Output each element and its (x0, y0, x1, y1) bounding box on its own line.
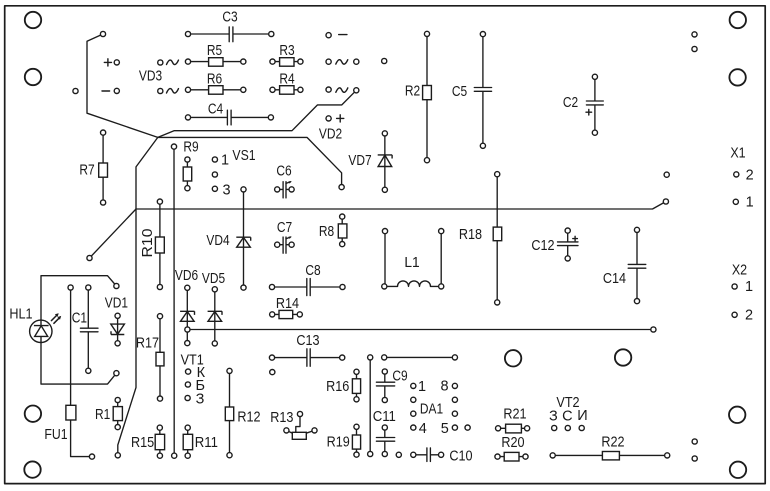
svg-text:R16: R16 (326, 379, 349, 395)
wire upper branch to VD2 + pad (158, 90, 356, 137)
svg-text:C14: C14 (603, 271, 626, 287)
resistor R8 lead (341, 217, 343, 245)
resistor R1 pads (115, 397, 120, 402)
resistor R2 top pad (424, 31, 429, 36)
diode VD7 symbol (378, 155, 392, 166)
node spare pad right of DA1 pin5 (465, 425, 470, 430)
resistor R12 body (225, 407, 233, 421)
resistor R19 body (352, 435, 360, 449)
capacitor C3 right pad (269, 31, 274, 36)
capacitor C4 right pad (268, 115, 273, 120)
resistor R10 pads (157, 199, 162, 204)
capacitor C5 leads and plates (474, 34, 491, 146)
svg-text:VD6: VD6 (175, 268, 198, 284)
resistor R8 body (338, 224, 347, 238)
capacitor C9 pads (382, 369, 387, 374)
diode VD5 top pad (212, 287, 217, 292)
svg-text:1: 1 (746, 195, 754, 211)
node HL1 box corner pad (87, 255, 92, 260)
svg-text:VD1: VD1 (105, 296, 128, 312)
LED HL1 symbol (35, 326, 48, 337)
transistor VT1 pad E (185, 395, 190, 400)
diode VD5 lead (214, 289, 216, 343)
capacitor C11 leads and plates (376, 428, 394, 455)
resistor R16 body (352, 379, 360, 394)
resistor R11 body (183, 434, 192, 449)
diode VD6 middle pad (185, 327, 190, 332)
svg-text:HL1: HL1 (9, 307, 32, 323)
resistor R12 pads (227, 368, 232, 373)
node bus1 right end pad (663, 199, 668, 204)
capacitor C12 pads (565, 228, 570, 233)
svg-text:R20: R20 (501, 435, 524, 451)
diode VD6 top pad (185, 285, 190, 290)
mounting hole bottom left 2 (24, 461, 40, 477)
node rail x370 pads (368, 355, 373, 360)
capacitor C3 left pad (185, 31, 190, 36)
resistor R20 lead (498, 456, 526, 458)
connector X1 pin 2 pad (734, 172, 739, 177)
capacitor C6 pads (275, 187, 280, 192)
capacitor C2 top pad (592, 74, 597, 79)
capacitor C4 leads and plates (188, 110, 271, 125)
inductor L1 pads (382, 229, 387, 234)
resistor R6 right pad (241, 87, 246, 92)
trimmer R13 body (292, 432, 306, 439)
svg-text:5: 5 (441, 421, 449, 437)
resistor R6 body (209, 86, 223, 95)
node FU1 bottom pad (89, 454, 94, 459)
wire bus2 horizontal from VD6 pad to right pad (187, 329, 653, 331)
capacitor C9 leads and plates (376, 372, 394, 401)
resistor R21 body (506, 424, 522, 433)
resistor R18 pads (495, 172, 500, 177)
node + pad VD2 bridge (326, 116, 331, 121)
connector X2 pin 2 pad (732, 312, 737, 317)
svg-text:8: 8 (440, 379, 448, 395)
mounting hole middle 2 (615, 349, 631, 365)
thyristor VS1 pad 2 (212, 172, 217, 177)
node AC pad VD2 row1 right (354, 59, 359, 64)
plus mark C12 (573, 236, 578, 241)
svg-text:4: 4 (419, 421, 427, 437)
resistor R5 left pad (185, 59, 190, 64)
resistor R3 right pad (298, 59, 303, 64)
C7 arrow head (289, 237, 292, 239)
svg-text:R21: R21 (503, 407, 526, 423)
svg-text:C11: C11 (373, 409, 396, 425)
mounting hole bottom left 1 (25, 406, 41, 422)
svg-text:И: И (577, 408, 587, 424)
resistor R7 pads (101, 130, 106, 135)
transistor VT1 pad B (185, 382, 190, 387)
capacitor C2 bottom pad (592, 130, 597, 135)
svg-text:R9: R9 (183, 140, 198, 156)
svg-text:С: С (562, 409, 572, 425)
node AC pad VD2 row2 left (326, 87, 331, 92)
minus mark right bridge top (339, 34, 347, 36)
svg-text:R19: R19 (327, 435, 350, 451)
node spare pad left of VD3 (73, 88, 78, 93)
svg-text:R22: R22 (601, 435, 624, 451)
resistor R18 lead (496, 174, 498, 302)
svg-text:R14: R14 (276, 296, 299, 312)
mounting hole top left 1 (25, 12, 41, 28)
node spare pad left of C10 (396, 452, 401, 457)
svg-text:VD7: VD7 (348, 153, 371, 169)
LED HL1 arrow heads (55, 313, 59, 317)
diode VD6 symbol (181, 312, 195, 322)
trimmer R13 wiper wire (296, 414, 300, 432)
capacitor C6 trimmer arrow (286, 182, 291, 184)
thyristor VS1 pad 3 (212, 186, 217, 191)
svg-text:VD3: VD3 (139, 69, 162, 85)
resistor R1 body (113, 407, 122, 421)
resistor R10 body (155, 237, 164, 253)
plus mark C2 (586, 109, 592, 115)
svg-text:C10: C10 (449, 449, 472, 465)
mounting hole middle 1 (505, 350, 521, 366)
capacitor C5 top pad (480, 31, 485, 36)
svg-text:R5: R5 (207, 43, 222, 59)
HL1 component box outline (41, 276, 116, 384)
svg-text:C4: C4 (208, 102, 223, 118)
diode VD5 bottom pad (212, 341, 217, 346)
capacitor C5 bottom pad (480, 143, 485, 148)
resistor R16 lead (356, 372, 358, 400)
capacitor C8 pads (269, 284, 274, 289)
resistor R16 pads (354, 369, 359, 374)
svg-text:VD2: VD2 (319, 127, 342, 143)
resistor R2 lead (426, 34, 428, 160)
node AC pad VD2 row1 left (326, 59, 331, 64)
svg-text:DA1: DA1 (420, 402, 443, 418)
svg-text:R12: R12 (237, 410, 260, 426)
trimmer R13 pad stubs (286, 430, 314, 433)
capacitor C2 leads and plates (586, 77, 603, 133)
svg-text:R1: R1 (95, 407, 110, 423)
svg-text:C13: C13 (296, 333, 319, 349)
capacitor C7 trimmer arrow (286, 237, 291, 239)
resistor R18 body (493, 227, 502, 241)
svg-text:З: З (196, 392, 205, 408)
resistor R4 body (280, 86, 294, 95)
resistor R20 pads (495, 454, 500, 459)
node - pad VD2 bridge (326, 33, 331, 38)
resistor R14 pads (270, 312, 275, 317)
minus mark left bridge (102, 90, 110, 92)
resistor R10 lead (159, 202, 161, 287)
svg-text:C6: C6 (276, 164, 291, 180)
resistor R21 lead (498, 427, 527, 429)
C6 arrow head (289, 181, 292, 183)
node spare pads top right (692, 32, 697, 37)
diode VD6 lead (186, 288, 188, 343)
resistor R7 body (99, 163, 108, 177)
IC DA1 pin 5 pad (452, 425, 457, 430)
svg-text:C1: C1 (72, 311, 87, 327)
resistor R20 body (504, 452, 519, 461)
node AC pad VD3 row1 (158, 60, 163, 65)
plus mark left bridge (104, 59, 111, 66)
resistor R22 pads (550, 453, 555, 458)
mounting hole top left 2 (25, 69, 41, 85)
wire vertical rail x=370 (369, 357, 371, 454)
resistor R9 pads (185, 157, 190, 162)
svg-text:L1: L1 (404, 255, 419, 271)
capacitor C8 leads and plates (272, 279, 343, 296)
resistor R6 left pad (185, 87, 190, 92)
AC tilde mark left bridge row2 (167, 89, 179, 94)
capacitor C13 leads and plates (272, 349, 342, 367)
wire left rail down to pad below R1 (118, 137, 158, 455)
node + pad VD3 bridge (114, 60, 119, 65)
svg-text:3: 3 (222, 183, 230, 199)
HL1 lamp arrows (51, 315, 60, 324)
svg-text:R13: R13 (270, 410, 293, 426)
connector X1 pin 1 pad (733, 199, 738, 204)
node spare pad right of VD2 (382, 58, 387, 63)
node spare pads bottom right (692, 439, 697, 444)
resistor R14 lead (272, 313, 300, 315)
capacitor C14 pads (634, 227, 639, 232)
svg-text:C2: C2 (563, 95, 578, 111)
svg-text:VS1: VS1 (232, 148, 255, 164)
trimmer R13 left pad (284, 428, 289, 433)
wire long vertical rail x=174 (173, 147, 175, 456)
svg-text:R18: R18 (459, 227, 482, 243)
IC DA1 pin 8 pad (452, 383, 457, 388)
diode VD7 top pad (382, 131, 387, 136)
resistor R15 body (155, 434, 164, 449)
svg-text:R6: R6 (207, 72, 222, 88)
inductor L1 legs (384, 231, 441, 286)
capacitor C6 leads and plates (277, 182, 291, 198)
resistor R19 lead (356, 427, 358, 455)
node spare pad below C13 (270, 370, 275, 375)
svg-text:R15: R15 (131, 435, 154, 451)
capacitor C13 pads (269, 355, 274, 360)
transistor VT1 pad K (186, 369, 191, 374)
capacitor C14 leads and plates (628, 230, 646, 301)
IC DA1 pin 6 pad (452, 411, 457, 416)
AC tilde mark right bridge row2 (336, 88, 348, 93)
resistor R7 lead (102, 133, 104, 203)
diode VD6 bottom pad (185, 341, 190, 346)
svg-text:VD5: VD5 (202, 271, 225, 287)
resistor R8 pads (340, 214, 345, 219)
resistor R11 lead (187, 428, 189, 456)
svg-text:2: 2 (745, 308, 753, 324)
capacitor C3 leads and plates (188, 27, 271, 42)
wire FU1 column from C1 pad to bottom pad (71, 288, 92, 457)
plus mark right bridge VD2 (337, 115, 344, 122)
node pad end of lower branch (339, 185, 344, 190)
capacitor C11 pads (382, 425, 387, 430)
fuse FU1 body (66, 405, 76, 420)
thyristor VS1 pad 1 (212, 157, 217, 162)
node pad below R1 (115, 453, 120, 458)
resistor R4 left pad (270, 87, 275, 92)
diode VD1 pads (115, 313, 120, 318)
resistor R15 pads (157, 425, 162, 430)
capacitor C7 pads (275, 242, 280, 247)
resistor R2 bottom pad (424, 158, 429, 163)
transistor VT2 pad 3 (552, 425, 557, 430)
resistor R17 lead (159, 316, 161, 398)
node bus2 right end pad (651, 327, 656, 332)
resistor R15 lead (159, 428, 161, 456)
node HL1 box right pads (114, 283, 119, 288)
resistor R4 right pad (298, 87, 303, 92)
mounting hole top right 1 (730, 12, 746, 28)
svg-text:C7: C7 (277, 220, 292, 236)
svg-text:X1: X1 (730, 146, 745, 162)
wire from DC+ pad down left side to junction J1 (87, 34, 158, 137)
node rail x174 top pad (171, 144, 176, 149)
transistor VT2 pad C (565, 425, 570, 430)
trimmer R13 wiper pad (297, 411, 302, 416)
diode VD1 symbol (111, 324, 125, 334)
node spare pad above X1 (664, 172, 669, 177)
diode VD4 lead (243, 189, 245, 287)
node rail x174 bottom pad (172, 453, 177, 458)
node DC output pad top left (100, 31, 105, 36)
AC tilde mark left bridge row1 (167, 60, 179, 65)
svg-text:C9: C9 (392, 369, 407, 385)
resistor R5 body (209, 58, 223, 66)
resistor R21 pads (496, 426, 501, 431)
IC DA1 pin 7 pad (452, 397, 457, 402)
svg-text:C5: C5 (452, 84, 467, 100)
capacitor C4 left pad (185, 115, 190, 120)
capacitor C1 pads (86, 285, 91, 290)
IC DA1 pin 4 pad (411, 425, 416, 430)
svg-text:R10: R10 (140, 229, 156, 258)
svg-text:C8: C8 (305, 263, 320, 279)
diode VD5 symbol (208, 312, 222, 322)
wire DA1 top row (384, 356, 455, 358)
mounting hole bottom right 2 (730, 462, 746, 478)
svg-text:R11: R11 (195, 435, 218, 451)
capacitor C1 leads and plates (80, 288, 98, 371)
diode VD7 bottom pad (382, 187, 387, 192)
resistor R22 body (602, 452, 619, 460)
resistor R17 pads (157, 314, 162, 319)
resistor R17 body (156, 352, 164, 366)
resistor R2 body (423, 86, 432, 100)
resistor R3 body (280, 58, 294, 66)
resistor R9 body (183, 167, 192, 181)
svg-text:VD4: VD4 (206, 233, 229, 249)
svg-text:R3: R3 (279, 43, 294, 59)
connector X2 pin 1 pad (732, 284, 737, 289)
resistor R14 body (279, 310, 293, 318)
trimmer R13 right pad (312, 428, 317, 433)
resistor R19 pads (354, 424, 359, 429)
svg-text:R2: R2 (405, 84, 420, 100)
svg-text:З: З (549, 409, 558, 425)
IC DA1 pin 1 pad (411, 383, 416, 388)
AC tilde mark right bridge row1 (336, 60, 348, 65)
IC DA1 pin 2 pad (411, 397, 416, 402)
svg-text:C3: C3 (222, 10, 237, 26)
wire diagonal from bus1 to HL1 box pad (90, 209, 137, 258)
svg-text:1: 1 (221, 153, 229, 169)
wire lower branch to node pad near C6 (158, 137, 342, 187)
mounting hole top right 2 (729, 69, 745, 85)
resistor R6 lead (188, 89, 243, 91)
node - pad VD3 bridge (114, 88, 119, 93)
capacitor C10 leads and plates (413, 448, 441, 462)
svg-text:C12: C12 (531, 238, 554, 254)
resistor R9 lead (186, 160, 188, 189)
diode VD1 lead (117, 316, 119, 344)
svg-text:R8: R8 (319, 224, 334, 240)
svg-text:1: 1 (418, 379, 426, 395)
diode VD4 bottom pad (241, 285, 246, 290)
diode VD4 symbol (237, 237, 251, 247)
capacitor C7 leads and plates (277, 237, 291, 253)
resistor R3 lead (273, 61, 301, 63)
svg-text:1: 1 (745, 279, 753, 295)
transistor VT2 pad I (579, 425, 584, 430)
resistor R3 left pad (270, 59, 275, 64)
resistor R1 lead (117, 400, 119, 427)
node FU1 top pad (68, 285, 73, 290)
wire bus1 horizontal to X1 pin1 (136, 202, 666, 210)
capacitor C10 pads (411, 452, 416, 457)
resistor R5 lead (188, 61, 243, 63)
node DA1 top row pads (382, 355, 387, 360)
svg-text:R7: R7 (79, 163, 94, 179)
svg-text:FU1: FU1 (44, 427, 67, 443)
diode VD7 lead (384, 133, 386, 189)
node AC pad VD2 row2 right (354, 88, 359, 93)
resistor R22 lead (553, 454, 668, 456)
node AC pad VD3 row2 (158, 88, 163, 93)
mounting hole bottom right 1 (729, 407, 745, 423)
LED HL1 circle (30, 320, 52, 342)
IC DA1 pin 3 pad (411, 411, 416, 416)
inductor L1 coil (398, 281, 431, 287)
svg-text:X2: X2 (732, 263, 747, 279)
svg-text:2: 2 (746, 168, 754, 184)
capacitor C12 leads and plates (558, 231, 579, 259)
resistor R4 lead (273, 89, 301, 91)
svg-text:R4: R4 (279, 72, 294, 88)
svg-text:R17: R17 (136, 336, 159, 352)
resistor R12 lead (229, 371, 231, 455)
resistor R5 right pad (241, 59, 246, 64)
diode VD4 top pad (241, 187, 246, 192)
resistor R11 pads (185, 425, 190, 430)
